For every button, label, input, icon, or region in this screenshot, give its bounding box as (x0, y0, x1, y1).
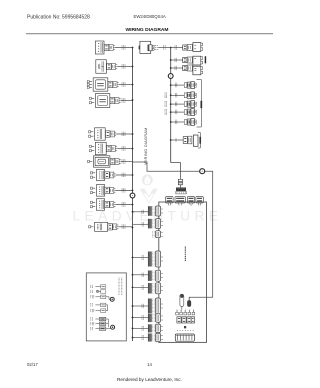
board stack K4 (148, 251, 163, 267)
lamp assembly L2 row (171, 56, 206, 65)
surface element switch SW5 row (171, 119, 197, 126)
connector P10 meat probe (90, 199, 132, 211)
header rule (26, 33, 273, 35)
ignition switch S6 (91, 317, 106, 320)
stack feed wires from bus (133, 210, 149, 340)
ignition switch S5 (91, 309, 106, 312)
grommet on cooktop feed wire (200, 169, 205, 174)
board connector J1 (166, 197, 174, 206)
board vertical label (184, 247, 186, 262)
board connector J2 (175, 197, 185, 206)
surface element switch SW4 row (171, 109, 197, 116)
grommet on left bus (130, 193, 135, 198)
thermal fuse F2 (180, 294, 184, 309)
ignition switch S4 (91, 303, 106, 306)
left harness bus wire (132, 48, 134, 342)
svg-text:Publication No: 5995684528: Publication No: 5995684528 (27, 15, 90, 21)
lamp assembly L1 row (171, 43, 203, 52)
board stack K7 (148, 298, 163, 314)
board dotted separator (177, 329, 194, 332)
spark module target A (106, 297, 114, 302)
svg-text:02/17: 02/17 (27, 362, 38, 367)
connector P1 oven vent motor (95, 41, 132, 54)
svg-text:LEADVENTURE: LEADVENTURE (73, 209, 223, 224)
harness connector above board (176, 188, 187, 194)
right bus junction dots (170, 47, 172, 141)
connector P7 oven light (88, 156, 133, 167)
right harness bus wire (170, 48, 172, 163)
sensor capsule (187, 300, 191, 306)
left bus junction dots (132, 47, 134, 339)
spark module target B (106, 319, 115, 329)
thermal fuse F1 (178, 179, 182, 187)
wire transformer to right bus (158, 47, 171, 49)
cooktop feed wire (133, 162, 213, 301)
board test point (184, 326, 186, 328)
board stack K6 (148, 283, 163, 294)
left wire labels for switch rows (165, 93, 167, 115)
board stack K5 (148, 270, 163, 281)
board stack K8 (148, 314, 163, 323)
surface ignition switch box (86, 273, 126, 341)
surface element switch SW2 row (171, 92, 197, 99)
board connector J3 (187, 197, 194, 206)
lamp assembly L3 row (171, 65, 203, 75)
svg-text:WIRING DIAGRAM: WIRING DIAGRAM (126, 27, 169, 33)
connector P9 oven sensor (90, 185, 132, 197)
group bracket with label (197, 80, 203, 128)
transformer T1 (139, 41, 158, 53)
board relay connector row (177, 317, 195, 323)
connector P5 broil element (89, 128, 133, 140)
surface element switch SW3 row (171, 101, 197, 108)
connector P6 bake element (89, 142, 132, 154)
svg-text:14: 14 (147, 362, 152, 367)
electronic oven control board U1 (159, 202, 207, 342)
igniter row B (171, 133, 201, 149)
ignition switch S1 (91, 285, 106, 288)
watermark flame logo (140, 174, 158, 204)
switch S4-S5 link wire (106, 305, 108, 311)
board stack K9 (148, 324, 163, 333)
ignition switch S7 (91, 322, 106, 325)
svg-text:WIRING DIAGRAM: WIRING DIAGRAM (143, 127, 148, 164)
board stack K2 (148, 219, 163, 229)
connector P8 temp probe (90, 170, 132, 181)
ignition switch S3 (91, 295, 106, 298)
board stack K10 (148, 333, 163, 342)
ignition switch S8 (91, 327, 106, 330)
board edge connector (175, 334, 194, 341)
connector P2 convection fan (96, 60, 133, 74)
switch box vertical label (119, 278, 122, 296)
connector P3 door lock motor (87, 78, 132, 91)
connector P4 cooling fan (89, 94, 132, 108)
board stack K1 (148, 206, 163, 216)
connector P11 door switch (89, 222, 133, 231)
board stack K3 (153, 231, 163, 238)
surface element switch SW1 row (171, 82, 197, 89)
ignition switch S2 with indicator (91, 290, 106, 293)
svg-text:EW24ID80QS4A: EW24ID80QS4A (134, 14, 166, 19)
board connector J4 (196, 197, 203, 206)
board pin header row (176, 310, 195, 315)
right bus bend to thermal fuse (171, 163, 181, 180)
svg-text:Rendered by LeadVenture, Inc.: Rendered by LeadVenture, Inc. (117, 377, 182, 382)
grommet on right bus (168, 74, 173, 79)
